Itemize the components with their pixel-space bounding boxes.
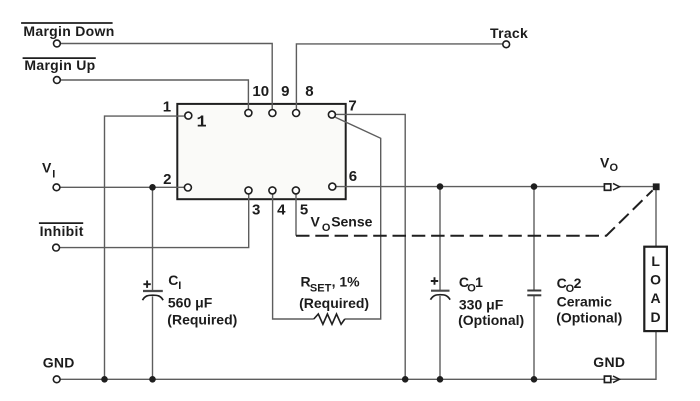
- svg-text:3: 3: [252, 202, 260, 219]
- svg-text:O: O: [322, 222, 331, 234]
- svg-text:(Optional): (Optional): [556, 310, 622, 326]
- svg-text:Margin Up: Margin Up: [24, 57, 95, 73]
- svg-text:O: O: [650, 272, 661, 288]
- svg-text:A: A: [651, 290, 661, 306]
- svg-text:(Required): (Required): [167, 312, 237, 328]
- svg-text:Inhibit: Inhibit: [40, 223, 84, 239]
- svg-text:D: D: [651, 309, 661, 325]
- svg-text:(Optional): (Optional): [458, 312, 524, 328]
- svg-text:1: 1: [163, 98, 171, 115]
- svg-text:O: O: [610, 162, 619, 174]
- svg-text:Ceramic: Ceramic: [557, 293, 612, 309]
- svg-text:V: V: [42, 160, 52, 176]
- svg-text:6: 6: [349, 168, 357, 185]
- svg-text:560 μF: 560 μF: [168, 294, 213, 310]
- svg-text:5: 5: [300, 202, 308, 219]
- svg-text:GND: GND: [43, 354, 75, 370]
- svg-text:(Required): (Required): [299, 295, 369, 311]
- svg-text:7: 7: [348, 97, 356, 114]
- svg-text:V: V: [600, 155, 610, 171]
- svg-text:2: 2: [574, 275, 582, 291]
- svg-text:Sense: Sense: [331, 213, 372, 229]
- svg-text:10: 10: [252, 83, 269, 100]
- svg-text:L: L: [651, 253, 660, 269]
- svg-text:, 1%: , 1%: [332, 274, 361, 290]
- svg-text:330 μF: 330 μF: [459, 296, 504, 312]
- svg-text:1: 1: [197, 114, 207, 133]
- svg-text:4: 4: [277, 202, 286, 219]
- svg-text:I: I: [178, 280, 181, 292]
- svg-text:C: C: [168, 272, 178, 288]
- svg-text:V: V: [311, 213, 321, 229]
- svg-text:Margin Down: Margin Down: [23, 23, 114, 39]
- svg-text:8: 8: [305, 83, 313, 100]
- svg-text:2: 2: [163, 171, 171, 188]
- svg-text:GND: GND: [593, 354, 625, 370]
- svg-text:I: I: [52, 169, 55, 181]
- svg-text:SET: SET: [310, 282, 332, 294]
- svg-text:1: 1: [475, 274, 483, 290]
- svg-text:Track: Track: [490, 25, 528, 41]
- svg-text:9: 9: [281, 83, 289, 100]
